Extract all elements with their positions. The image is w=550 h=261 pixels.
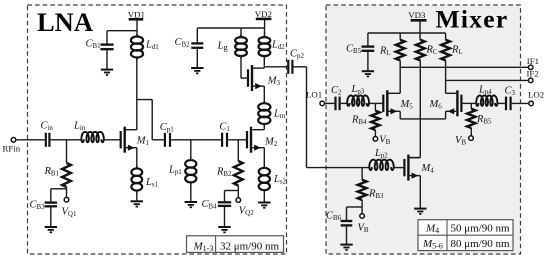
label Ls2: [273, 174, 287, 186]
wire CB4 to ground: [224, 206, 226, 227]
Mixer title: [436, 5, 509, 34]
wire Lp3 to M5 gate: [369, 102, 382, 104]
label VD3: [408, 10, 426, 20]
label M5: [400, 99, 414, 111]
terminal VB of RB3: [360, 214, 365, 219]
label LO1: [306, 90, 322, 100]
ground: [340, 245, 352, 250]
transistor M4: [404, 155, 420, 181]
table M1-3 size: [187, 236, 284, 253]
svg-text:32 μm/90 nm: 32 μm/90 nm: [220, 240, 280, 252]
wire Ls2 to ground: [263, 190, 265, 202]
svg-text:Mixer: Mixer: [436, 5, 509, 34]
wire C3 to LO2: [512, 102, 529, 104]
label RB2: [216, 167, 232, 179]
wire M6 gate to Lp4: [463, 102, 477, 104]
label Cp1: [160, 122, 174, 134]
ground: [414, 209, 426, 214]
wire RC to tail node: [419, 60, 421, 157]
svg-text:Lg: Lg: [217, 41, 229, 53]
wire node A down to RB1: [66, 140, 68, 163]
label LO2: [528, 90, 544, 100]
capacitor CB2: [191, 43, 203, 47]
wire IF2 line: [446, 79, 529, 81]
supply VD3 bar: [411, 19, 427, 22]
capacitor CB1: [100, 45, 113, 50]
transistor M5: [383, 90, 400, 116]
supply VD1 bar: [129, 18, 144, 21]
label RL left: [379, 46, 391, 58]
label VD2: [255, 9, 272, 19]
label RB4: [351, 115, 367, 127]
wire M3 drain to Cp2: [264, 66, 287, 68]
wire Cp2 down to Lp2 line: [294, 67, 370, 168]
ground: [101, 70, 113, 75]
svg-text:VD3: VD3: [408, 10, 426, 20]
label VQ1: [62, 207, 77, 219]
label Cin: [41, 121, 54, 133]
label RC: [426, 45, 438, 57]
terminal VQ2: [236, 198, 241, 203]
resistor RL right: [441, 40, 450, 61]
capacitor C2: [336, 97, 340, 111]
label C3: [505, 86, 516, 98]
label VD1: [128, 9, 145, 19]
resistor RB2: [234, 161, 243, 186]
label CB5: [346, 44, 362, 56]
terminal RFin: [11, 138, 45, 143]
ground: [191, 68, 203, 73]
label Lp2: [374, 148, 388, 160]
wire M1 drain up to Ld1: [136, 57, 138, 130]
wire RL right to M6 drain: [445, 60, 447, 93]
ground: [362, 71, 374, 76]
capacitor CB3: [45, 203, 57, 207]
wire rail to CB5: [367, 33, 369, 46]
wire RB3 bottom junction: [347, 200, 363, 220]
inductor Ls1: [131, 166, 142, 193]
resistor RC: [416, 40, 425, 61]
terminal VB of RB4: [373, 137, 378, 142]
resistor RB3: [358, 180, 367, 200]
capacitor Cin: [46, 133, 50, 147]
label Ls1: [145, 177, 159, 189]
capacitor Cp1: [165, 133, 170, 147]
svg-text:50 μm/90 nm: 50 μm/90 nm: [450, 223, 510, 235]
ground: [258, 203, 270, 208]
resistor RL left: [396, 40, 405, 61]
resistor RB1: [62, 163, 71, 187]
terminal IF1: [528, 65, 533, 70]
label Lp3: [351, 84, 365, 96]
wire Cp1 to C1: [171, 139, 221, 141]
inductor Lm: [258, 101, 270, 127]
label CB6: [326, 211, 342, 223]
terminal LO1: [320, 101, 325, 106]
wire VD1 to Ld1: [136, 19, 138, 37]
label RB5: [476, 114, 492, 126]
label VB of RB5: [455, 135, 466, 147]
wire C1 to M2 gate: [228, 139, 246, 141]
label Lin: [73, 121, 86, 133]
svg-text:LNA: LNA: [37, 7, 93, 37]
svg-text:LO2: LO2: [528, 90, 544, 100]
resistor RB4: [371, 111, 379, 130]
svg-text:80 μm/90 nm: 80 μm/90 nm: [450, 238, 510, 250]
svg-text:RFin: RFin: [3, 144, 21, 154]
wire Lm to M3 source: [263, 86, 265, 103]
wire M4 drain to tail: [410, 157, 421, 159]
wire node to RB3: [361, 168, 363, 180]
transistor M6: [446, 90, 462, 116]
supply VD2 bar: [256, 18, 272, 21]
label C2: [331, 85, 342, 97]
table M4 M5-6 sizes: [418, 220, 513, 251]
inductor Ls2: [259, 165, 270, 192]
label VQ2: [239, 206, 254, 218]
label M4: [421, 163, 435, 175]
wire CB1 to ground: [106, 49, 108, 69]
label RL right: [451, 45, 463, 57]
capacitor Cp2: [288, 60, 292, 74]
svg-text:IF1: IF1: [527, 56, 539, 66]
label Ld1: [145, 40, 159, 52]
label Lp1: [168, 165, 182, 177]
inductor Lin: [81, 132, 103, 142]
capacitor C3: [506, 97, 511, 111]
wire M2 drain to Lm: [263, 124, 265, 130]
transistor M3: [248, 65, 264, 91]
ground: [131, 201, 143, 206]
wire M1 source to Ls1: [136, 148, 138, 169]
wire M3 drain bus: [263, 58, 265, 68]
label CB1: [86, 38, 102, 50]
capacitor CB6: [341, 221, 353, 225]
label CB2: [175, 37, 191, 49]
wire LO1 to C2: [325, 102, 335, 104]
wire IF1 line: [400, 66, 528, 68]
transistor M1: [121, 127, 137, 153]
terminal VB of RB5: [469, 136, 474, 141]
inductor Ld1: [131, 34, 143, 60]
wire RL left to M5 drain: [399, 60, 401, 93]
wire VD3 to rail: [419, 20, 421, 40]
wire M4 source to ground: [419, 176, 421, 208]
label RFin: [3, 144, 21, 154]
wire Cin to Lin: [51, 139, 82, 141]
capacitor C1: [222, 133, 227, 147]
label M1: [136, 136, 150, 148]
terminal LO2: [529, 101, 534, 106]
wire to CB1: [107, 31, 137, 44]
wire RB5 to VB: [470, 128, 472, 136]
label IF1: [527, 56, 539, 66]
wire drain branch to Cp1: [136, 100, 164, 140]
label RB1: [44, 166, 60, 178]
label VB of RB3: [358, 223, 369, 235]
inductor Ld2: [259, 35, 271, 59]
wire C2 to Lp3: [341, 102, 348, 104]
label Lp4: [478, 85, 492, 97]
label CB4: [202, 199, 218, 211]
label VB of RB4: [379, 135, 390, 147]
ground: [185, 202, 197, 207]
label M2: [264, 137, 278, 149]
Mixer block dashed border box (gray): [326, 5, 521, 254]
wire node down to RB2: [237, 140, 239, 161]
label Lm: [273, 109, 286, 121]
wire RB1 bottom junction: [51, 187, 67, 202]
inductor Lp1: [185, 158, 196, 185]
label M6: [429, 99, 443, 111]
svg-text:VD1: VD1: [128, 9, 145, 19]
wire RB4 to VB: [374, 130, 376, 137]
wire node to RB5: [470, 103, 472, 108]
wire M3 gate to Lg: [241, 58, 248, 78]
wire VD2 rail: [197, 19, 264, 38]
svg-text:Cp2: Cp2: [290, 49, 304, 61]
transistor M2: [247, 127, 264, 153]
inductor Lg: [235, 35, 247, 59]
wire RB2 bottom junction: [225, 186, 239, 202]
ground: [218, 227, 230, 232]
wire Ls1 to ground: [136, 191, 138, 201]
wire node to RB4: [374, 103, 376, 110]
wire Lp1 to ground: [190, 182, 192, 201]
LNA block dashed border box: [28, 5, 287, 254]
inductor Lp4: [476, 96, 497, 106]
wire Lp4 to C3: [497, 102, 505, 104]
wire CB2 to ground: [196, 48, 198, 68]
inductor Lp2: [369, 160, 393, 170]
label Lg: [217, 41, 229, 53]
ground: [45, 227, 57, 232]
wire rail to CB2: [196, 28, 198, 43]
wire CB3 to ground: [50, 206, 52, 226]
wire CB5 to ground: [367, 51, 369, 71]
wire M6 source to tail: [420, 111, 445, 119]
terminal VQ1: [64, 197, 69, 202]
wire M2 source to Ls2: [263, 148, 265, 169]
wire CB6 to ground: [346, 225, 348, 244]
wire Lp2 to M4 gate: [394, 167, 404, 169]
svg-text:IF2: IF2: [527, 69, 539, 79]
wire M5 source to tail: [400, 111, 420, 119]
resistor RB5: [467, 109, 475, 128]
inductor Lp3: [347, 96, 369, 106]
wire VD3 rail: [368, 33, 446, 40]
svg-text:VD2: VD2: [255, 9, 272, 19]
svg-text:LO1: LO1: [306, 90, 322, 100]
label M3: [267, 76, 281, 88]
label RB3: [368, 189, 384, 201]
label Cp2: [290, 49, 304, 61]
label Ld2: [271, 40, 285, 52]
capacitor CB5: [362, 47, 375, 51]
terminal IF2: [528, 78, 533, 83]
wire node to Lp1: [190, 140, 192, 160]
capacitor CB4: [218, 202, 231, 206]
label C1: [219, 121, 230, 133]
wire Lin to M1 gate: [104, 139, 121, 141]
label IF2: [527, 69, 539, 79]
label CB3: [30, 200, 46, 212]
LNA title: [37, 7, 93, 37]
